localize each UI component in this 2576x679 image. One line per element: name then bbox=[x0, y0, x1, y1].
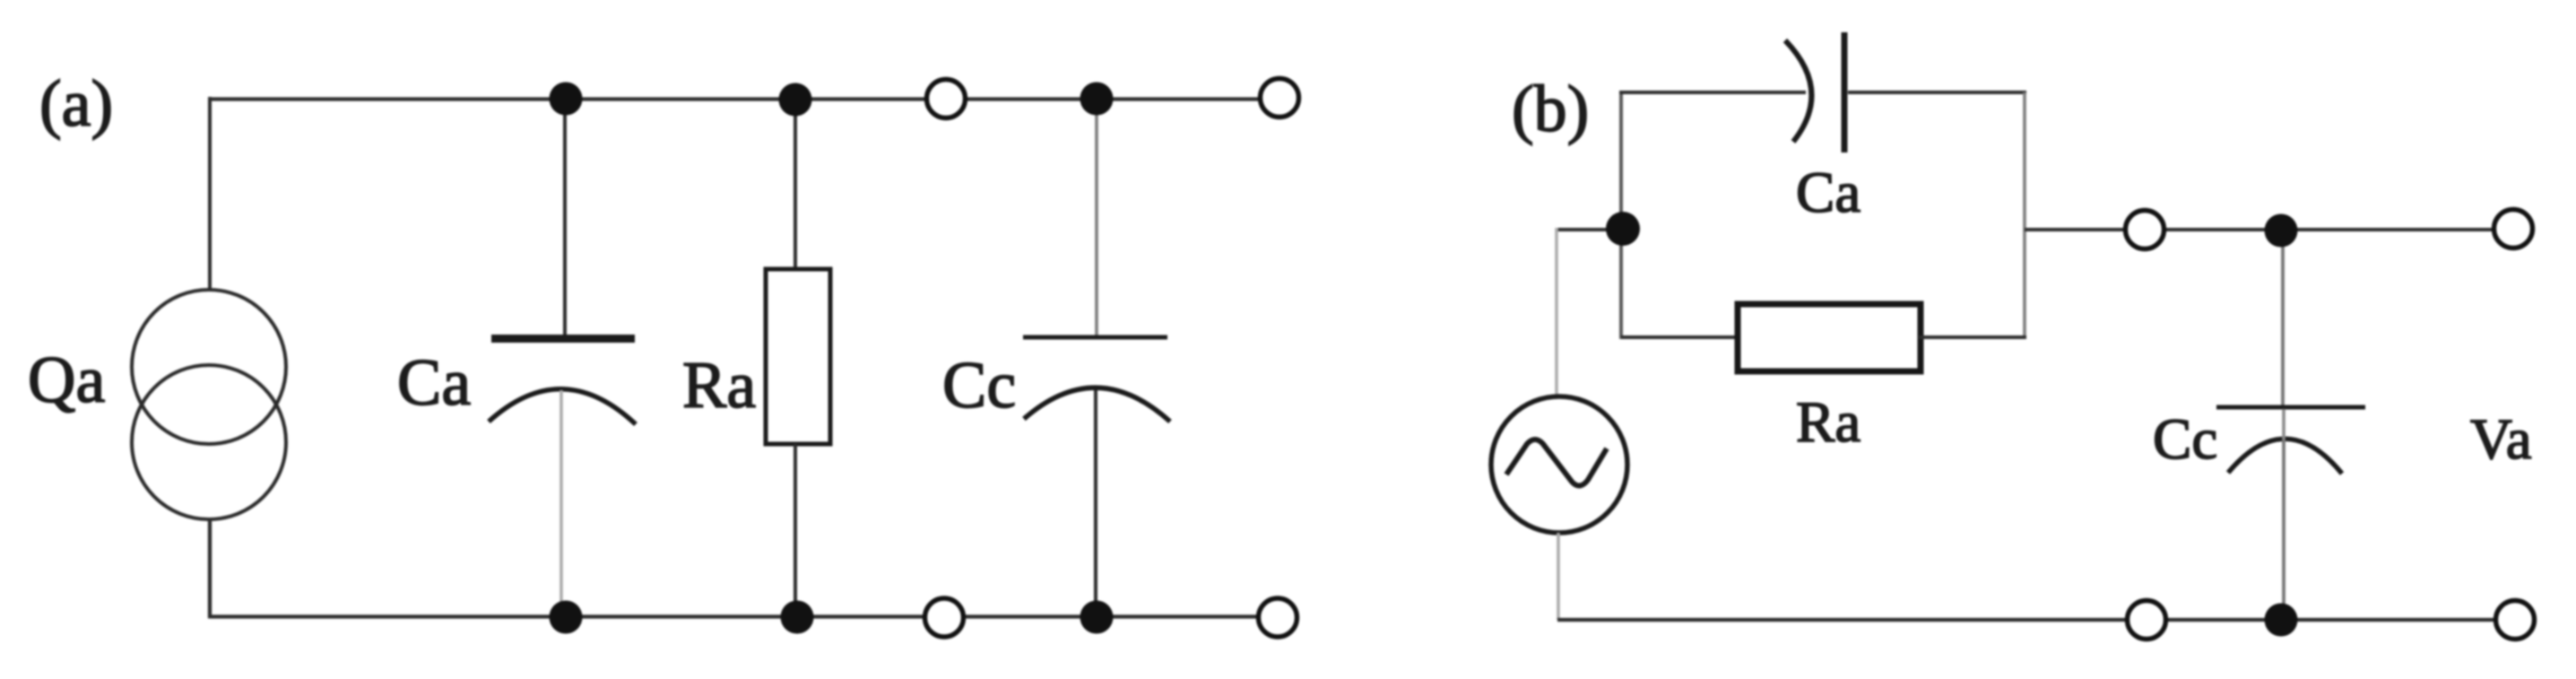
ac source V bbox=[1491, 396, 1627, 533]
svg-text:Ra: Ra bbox=[1796, 390, 1860, 455]
svg-text:Cc: Cc bbox=[2153, 407, 2217, 472]
wire b loop bottom left bbox=[1621, 335, 1739, 339]
wire b source upper vertical bbox=[1555, 228, 1558, 398]
capacitor Ca (b) bbox=[1785, 32, 1844, 152]
svg-text:(a): (a) bbox=[39, 67, 113, 141]
terminal a-bottom-1 bbox=[925, 598, 964, 637]
junction dot a-bottom-1 bbox=[550, 601, 583, 634]
wire Ca bottom bbox=[559, 390, 563, 617]
wire b loop right vertical bbox=[2023, 92, 2026, 339]
wire b loop left vertical bbox=[1619, 92, 1623, 339]
wire b bottom rail bbox=[1557, 618, 2516, 622]
svg-text:Qa: Qa bbox=[28, 344, 105, 417]
terminal a-top-1 bbox=[927, 80, 966, 118]
junction dot a-top-3 bbox=[1080, 83, 1114, 116]
terminal b-out-2 bbox=[2494, 210, 2533, 248]
wire b output rail bbox=[2025, 228, 2514, 231]
svg-text:Ca: Ca bbox=[397, 346, 471, 420]
wire Cc bottom bbox=[1094, 390, 1097, 617]
wire b source lower vertical bbox=[1557, 533, 1560, 620]
junction dot a-bottom-2 bbox=[781, 601, 814, 634]
svg-text:Ra: Ra bbox=[682, 349, 756, 422]
resistor Ra (b) bbox=[1738, 304, 1921, 371]
junction dot b-source bbox=[1606, 212, 1640, 246]
wire Ra bottom bbox=[794, 444, 797, 617]
wire b Cc top bbox=[2281, 231, 2285, 405]
svg-text:(b): (b) bbox=[1512, 73, 1589, 146]
terminal b-bottom-1 bbox=[2128, 601, 2166, 640]
wire b Cc bottom bbox=[2282, 440, 2285, 620]
wire Ca top bbox=[563, 99, 567, 336]
capacitor Cc bbox=[1023, 337, 1170, 422]
capacitor Cc (b) bbox=[2216, 407, 2365, 474]
junction dot a-top-2 bbox=[779, 83, 812, 117]
wire Ra top bbox=[794, 99, 797, 271]
wire left vertical lower (a) bbox=[208, 518, 212, 619]
wire left vertical upper (a) bbox=[208, 97, 212, 292]
wire bottom rail (a) bbox=[210, 614, 1278, 618]
junction dot b-out-bottom bbox=[2265, 604, 2298, 637]
capacitor Ca bbox=[489, 335, 636, 424]
terminal a-bottom-2 bbox=[1259, 598, 1297, 637]
svg-text:Cc: Cc bbox=[942, 349, 1016, 422]
resistor Ra bbox=[766, 269, 830, 444]
terminal b-bottom-2 bbox=[2496, 601, 2535, 640]
svg-text:Va: Va bbox=[2470, 407, 2532, 472]
junction dot a-bottom-3 bbox=[1080, 601, 1114, 634]
terminal a-top-2 bbox=[1261, 79, 1299, 118]
wire b loop bottom right bbox=[1919, 335, 2026, 339]
wire b Cc mid bbox=[2282, 409, 2285, 440]
wire b loop top right bbox=[1848, 91, 2026, 94]
junction dot a-top-1 bbox=[550, 83, 583, 116]
wire b loop top left bbox=[1619, 91, 1806, 94]
wire top rail (a) bbox=[210, 97, 1279, 100]
terminal b-out-1 bbox=[2126, 211, 2164, 249]
junction dot b-out-top bbox=[2265, 214, 2298, 248]
svg-text:Ca: Ca bbox=[1796, 161, 1860, 225]
wire b source top horizontal bbox=[1557, 228, 1623, 231]
current source Qa bbox=[132, 290, 286, 519]
wire Cc top bbox=[1095, 99, 1098, 337]
